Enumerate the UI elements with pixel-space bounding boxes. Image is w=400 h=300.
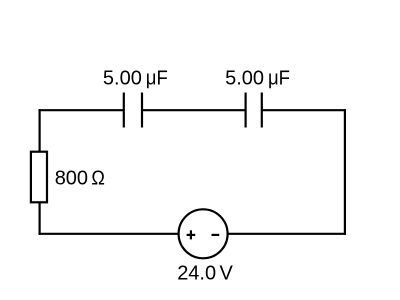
voltage source value 24.0 V <box>177 263 233 285</box>
wire top-left segment <box>39 109 124 111</box>
wire top-middle segment <box>142 109 246 111</box>
wire left upper stub <box>38 109 40 151</box>
capacitor C1 value 5.00 uF <box>103 67 168 89</box>
wire bottom-left segment <box>39 233 179 235</box>
voltage source plus terminal <box>187 230 196 239</box>
wire right segment <box>344 109 346 235</box>
svg-text:μF: μF <box>268 67 290 89</box>
capacitor C2 value 5.00 uF <box>225 67 290 89</box>
svg-text:800: 800 <box>55 168 88 190</box>
capacitor C1 <box>124 93 142 128</box>
svg-text:Ω: Ω <box>91 168 105 190</box>
resistor R1 <box>31 152 47 203</box>
svg-text:24.0: 24.0 <box>177 263 216 285</box>
wire top-right segment <box>262 109 346 111</box>
wire bottom-right segment <box>227 233 346 235</box>
svg-text:5.00: 5.00 <box>225 67 264 89</box>
svg-text:5.00: 5.00 <box>103 67 142 89</box>
svg-text:V: V <box>220 263 234 285</box>
wire left lower stub <box>38 203 40 235</box>
voltage source minus terminal <box>212 234 220 236</box>
capacitor C2 <box>246 93 262 128</box>
resistor R1 value 800 ohm <box>55 168 105 190</box>
svg-text:μF: μF <box>146 67 168 89</box>
voltage source V1 <box>179 209 228 258</box>
